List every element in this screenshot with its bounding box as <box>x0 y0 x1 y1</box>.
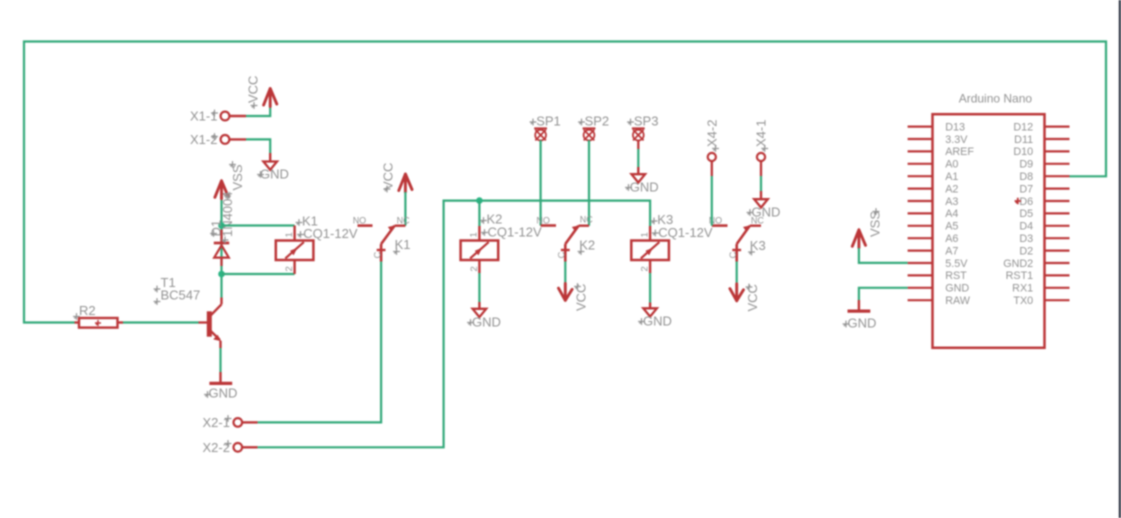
svg-text:GND: GND <box>472 314 501 329</box>
origin cross X2-1 <box>225 415 232 422</box>
origin cross GND (SP3) <box>625 184 632 191</box>
ground GND (T1 emitter) <box>219 372 221 382</box>
origin cross X4-2 <box>712 145 719 152</box>
svg-text:2: 2 <box>284 266 295 271</box>
svg-text:RAW: RAW <box>945 295 971 307</box>
wire diode top node to K1 pin 1 <box>222 224 295 226</box>
origin cross GND (X1-2) <box>257 171 264 178</box>
svg-text:RST1: RST1 <box>1006 270 1034 282</box>
svg-text:2: 2 <box>640 266 651 271</box>
svg-text:NO: NO <box>536 216 550 226</box>
svg-text:GND: GND <box>260 167 289 182</box>
svg-text:VSS: VSS <box>230 164 245 190</box>
svg-text:1N4004: 1N4004 <box>220 191 235 237</box>
transistor T1 BC547 <box>199 321 208 323</box>
Arduino left pins <box>908 127 933 301</box>
wire bus to K2 pin 1 <box>478 201 480 226</box>
Arduino left pin labels <box>945 121 974 307</box>
IC U1 Arduino Nano box <box>933 114 1045 348</box>
svg-text:X4-1: X4-1 <box>754 120 769 147</box>
wire K1 C to X2-1 <box>258 262 382 423</box>
wire K2 C to VCC <box>564 262 566 288</box>
svg-text:TX0: TX0 <box>1013 295 1033 307</box>
svg-text:VSS: VSS <box>868 211 883 237</box>
wire GND to GND pin <box>859 288 908 300</box>
svg-text:CQ1-12V: CQ1-12V <box>488 225 543 240</box>
svg-text:X4-2: X4-2 <box>705 120 720 147</box>
svg-text:1: 1 <box>639 232 650 237</box>
svg-text:A5: A5 <box>945 221 958 233</box>
svg-text:A7: A7 <box>945 245 958 257</box>
connector pin X2-2 <box>234 443 243 452</box>
wire K2 pin2 to GND <box>478 273 480 302</box>
relay coil K3 <box>649 226 651 241</box>
supply VSS arrow (Arduino) <box>852 230 865 248</box>
svg-text:D10: D10 <box>1013 146 1033 158</box>
svg-text:VCC: VCC <box>381 163 396 190</box>
relay coil K1 <box>293 226 295 241</box>
svg-text:X2-1: X2-1 <box>203 415 230 430</box>
svg-text:NO: NO <box>353 216 367 226</box>
origin cross SP1 <box>530 119 537 126</box>
node junction diode-cathode/K1 pin1 <box>218 222 225 229</box>
wire collector node to K1 pin 2 <box>222 273 295 275</box>
svg-text:D8: D8 <box>1019 171 1033 183</box>
origin cross VSS (Arduino) <box>873 208 880 215</box>
net marker at D6 <box>1015 198 1021 204</box>
svg-text:RST: RST <box>945 270 967 282</box>
contact NO stub K2 <box>541 224 556 227</box>
svg-text:D7: D7 <box>1019 183 1033 195</box>
wire X4-2 to K3 NO <box>711 176 713 226</box>
svg-text:AREF: AREF <box>945 146 974 158</box>
svg-text:C: C <box>373 252 384 259</box>
origin cross X2-2 <box>225 440 232 447</box>
contact NO stub K1 <box>358 224 373 227</box>
svg-text:C: C <box>557 252 568 259</box>
svg-text:NC: NC <box>397 216 410 226</box>
supply VCC arrow down (K2 C) <box>559 283 573 300</box>
svg-text:3.3V: 3.3V <box>945 134 968 146</box>
svg-text:K3: K3 <box>750 238 766 253</box>
origin cross K1 coil <box>296 219 303 226</box>
svg-text:GND: GND <box>848 315 877 330</box>
origin cross X1-1 <box>211 110 218 117</box>
wire VSS to 5.5V pin <box>859 248 908 263</box>
origin cross K3 coil <box>651 218 658 225</box>
origin cross K2 coil <box>480 217 487 224</box>
svg-text:D9: D9 <box>1019 159 1033 171</box>
svg-text:D11: D11 <box>1014 134 1033 146</box>
speaker SP3 <box>632 127 645 129</box>
svg-text:1: 1 <box>284 232 295 237</box>
origin cross K2 switch <box>578 248 585 255</box>
svg-text:A2: A2 <box>945 183 958 195</box>
speaker SP2 <box>583 127 596 129</box>
svg-text:A3: A3 <box>945 196 958 208</box>
svg-text:X1-2: X1-2 <box>190 132 217 147</box>
Arduino right pin labels <box>1003 121 1033 307</box>
connector pin X2-1 <box>234 418 243 427</box>
wire X1-1 to VCC <box>246 104 270 117</box>
svg-text:1: 1 <box>469 232 480 237</box>
svg-text:GND: GND <box>752 204 781 219</box>
origin cross GND (T1) <box>204 391 211 398</box>
supply VCC arrow down (K3 C) <box>730 284 744 301</box>
origin cross VCC (K2 C) <box>574 283 581 290</box>
origin cross SP2 <box>578 119 585 126</box>
diode D1 symbol <box>214 242 229 245</box>
svg-text:GND: GND <box>643 313 672 328</box>
svg-text:RX1: RX1 <box>1012 283 1033 295</box>
svg-text:Arduino Nano: Arduino Nano <box>959 92 1033 106</box>
origin cross CQ1-12V (K3) <box>652 230 659 237</box>
svg-text:X2-2: X2-2 <box>203 440 230 455</box>
wire X4-1 to GND <box>760 176 762 191</box>
origin cross GND (X4-1) <box>747 209 754 216</box>
svg-text:X1-1: X1-1 <box>190 109 217 124</box>
ground GND (X1-2) <box>269 153 271 162</box>
svg-text:VCC: VCC <box>246 76 261 103</box>
origin cross R2 <box>73 313 80 320</box>
relay contact lever K1 <box>381 226 395 244</box>
svg-text:D6: D6 <box>1019 196 1033 208</box>
svg-text:GND: GND <box>209 386 238 401</box>
wire K3 pin2 to GND <box>649 273 651 303</box>
ground GND (Arduino) <box>858 300 860 310</box>
svg-text:SP2: SP2 <box>585 113 610 128</box>
svg-text:D2: D2 <box>1019 245 1033 257</box>
wire SP1 to K2 NO <box>539 140 541 225</box>
relay contact lever K2 <box>565 226 578 244</box>
wire R2 to base <box>123 321 199 323</box>
svg-text:5.5V: 5.5V <box>945 258 968 270</box>
supply VCC arrow (K1 NC) <box>399 174 412 192</box>
node junction diode-anode/collector/K1 <box>218 271 225 278</box>
Arduino right pins <box>1045 127 1070 301</box>
svg-text:SP3: SP3 <box>634 113 659 128</box>
contact NC stub K3 <box>750 224 761 226</box>
svg-text:A1: A1 <box>945 171 958 183</box>
window edge right border <box>1119 0 1121 518</box>
svg-text:SP1: SP1 <box>536 113 561 128</box>
ground GND (X4-1) <box>760 191 762 199</box>
svg-text:C: C <box>728 252 739 259</box>
svg-text:D4: D4 <box>1019 221 1033 233</box>
relay coil K2 <box>478 226 480 241</box>
svg-text:NC: NC <box>580 215 593 225</box>
wire VCC to K1 NC <box>404 192 406 226</box>
wire net D8 to R2 outer loop <box>24 42 1106 323</box>
ground GND (K2) <box>478 302 480 309</box>
resistor R2 <box>75 321 80 323</box>
connector pin X1-2 <box>221 135 230 144</box>
svg-text:A0: A0 <box>945 159 958 171</box>
relay contact lever K3 <box>737 226 750 244</box>
origin cross GND (Arduino) <box>843 321 850 328</box>
origin cross CQ1-12V (K2) <box>481 229 488 236</box>
svg-text:BC547: BC547 <box>161 288 201 303</box>
svg-text:GND: GND <box>945 283 969 295</box>
node junction bus/K2 pin1 <box>476 197 483 204</box>
svg-text:R2: R2 <box>79 303 96 318</box>
wire SP3 to GND <box>637 140 639 149</box>
wire X1-2 to GND <box>246 139 270 153</box>
supply VSS arrow (D1) <box>215 181 228 199</box>
speaker SP1 <box>534 127 547 129</box>
origin cross GND (K3) <box>638 318 645 325</box>
svg-text:A4: A4 <box>945 208 958 220</box>
connector pin X1-1 <box>221 112 230 121</box>
origin cross X4-1 <box>761 145 768 152</box>
svg-text:D13: D13 <box>945 121 965 133</box>
wire X2-2 to relay coil bus <box>258 201 650 448</box>
origin cross VCC (X1-1) <box>251 102 258 109</box>
origin cross GND (K2) <box>467 319 474 326</box>
origin cross K3 switch <box>748 249 755 256</box>
wire emitter to GND <box>219 348 221 372</box>
origin cross X1-2 <box>211 133 218 140</box>
svg-text:GND: GND <box>630 180 659 195</box>
wire SP2 to K2 NC <box>588 140 590 225</box>
contact NC stub K2 <box>579 224 589 226</box>
origin cross BC547 <box>154 298 161 305</box>
ground GND (SP3) <box>637 167 639 174</box>
svg-text:A6: A6 <box>945 233 958 245</box>
origin cross VCC (K3 C) <box>746 284 753 291</box>
contact NO stub K3 <box>712 224 728 227</box>
ground GND (K3) <box>649 303 651 309</box>
svg-text:D3: D3 <box>1019 233 1033 245</box>
svg-text:2: 2 <box>469 266 480 271</box>
origin cross VSS (D1) <box>229 161 236 168</box>
connector pin X4-2 <box>708 153 716 161</box>
origin cross CQ1-12V (K1) <box>297 231 304 238</box>
origin cross T1 <box>154 286 161 293</box>
wire K3 C to VCC <box>736 262 738 288</box>
svg-text:D12: D12 <box>1013 121 1033 133</box>
origin cross 1N4004 <box>222 237 229 244</box>
origin cross SP3 <box>627 119 634 126</box>
svg-text:CQ1-12V: CQ1-12V <box>303 226 358 241</box>
contact NC stub K1 <box>395 224 406 226</box>
origin cross VCC (K1 NC) <box>384 186 391 193</box>
svg-text:D5: D5 <box>1019 208 1033 220</box>
origin cross D1 <box>210 230 217 237</box>
svg-text:GND2: GND2 <box>1003 258 1033 270</box>
origin cross K1 switch <box>393 248 400 255</box>
svg-text:CQ1-12V: CQ1-12V <box>658 225 713 240</box>
supply VCC arrow (X1-1) <box>264 89 277 107</box>
connector pin X4-1 <box>757 153 765 161</box>
wire VSS/D1/collector vertical <box>220 200 222 298</box>
